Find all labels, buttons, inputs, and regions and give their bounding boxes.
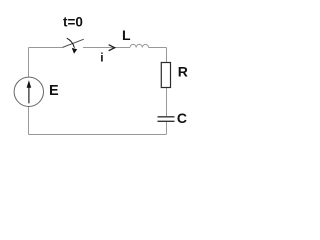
svg-text:t=0: t=0 xyxy=(63,14,83,29)
svg-text:L: L xyxy=(122,27,131,43)
svg-text:C: C xyxy=(177,110,187,126)
svg-text:R: R xyxy=(178,64,188,80)
svg-text:E: E xyxy=(49,83,59,99)
svg-text:i: i xyxy=(100,51,103,65)
